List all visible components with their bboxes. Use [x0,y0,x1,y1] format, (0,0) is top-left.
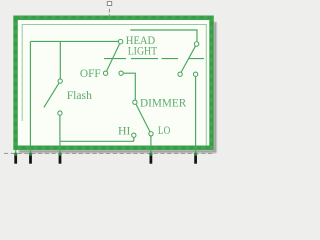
svg-text:OFF: OFF [80,66,101,80]
top terminal dashed lead [108,9,110,16]
contact HEAD LIGHT [118,39,123,44]
wire left vertical to pin 2 [29,41,31,155]
component interior fill [17,19,209,146]
wire to pin 3 [59,141,61,155]
wire LO to pin 4 [150,136,152,155]
wire pin 1 stub [15,148,17,155]
wire flash contact down [59,116,61,142]
contact OFF right [119,71,123,75]
inner thin box [22,25,206,146]
lever right switch [181,46,195,72]
contact flash lower [58,111,62,115]
svg-text:DIMMER: DIMMER [140,96,186,110]
contact DIMMER pivot [133,100,137,104]
contact HI [132,133,136,137]
wire right contact to pin 5 [195,77,197,156]
contact LO [149,132,153,136]
contact right upper [194,42,199,47]
lever headlight [107,44,120,71]
gray dashed baseline [4,152,215,154]
svg-text:LIGHT: LIGHT [128,43,158,57]
wire top horizontal [30,40,118,42]
contact right lower left [178,72,182,76]
contact OFF pivot [103,71,107,75]
pin caps [14,153,197,156]
svg-text:Flash: Flash [67,88,92,102]
contact right lower right [193,72,197,76]
drop shadow right [19,22,217,153]
outer component border (base) [16,18,212,148]
wire OFF to dimmer [124,73,136,100]
wire right top [130,30,197,41]
lever flash [44,83,59,107]
outer component border (dark dashes) [16,18,212,148]
svg-text:LO: LO [158,123,171,137]
wire to flash pivot [59,41,61,78]
svg-text:HI: HI [118,124,130,138]
top terminal square [107,2,111,6]
mech link dashed [104,58,204,60]
wire bottom horizontal [60,140,134,142]
black pins [14,156,197,164]
contact flash pivot [58,79,62,83]
lever dimmer [136,104,150,131]
wire HI contact stub [133,138,135,142]
